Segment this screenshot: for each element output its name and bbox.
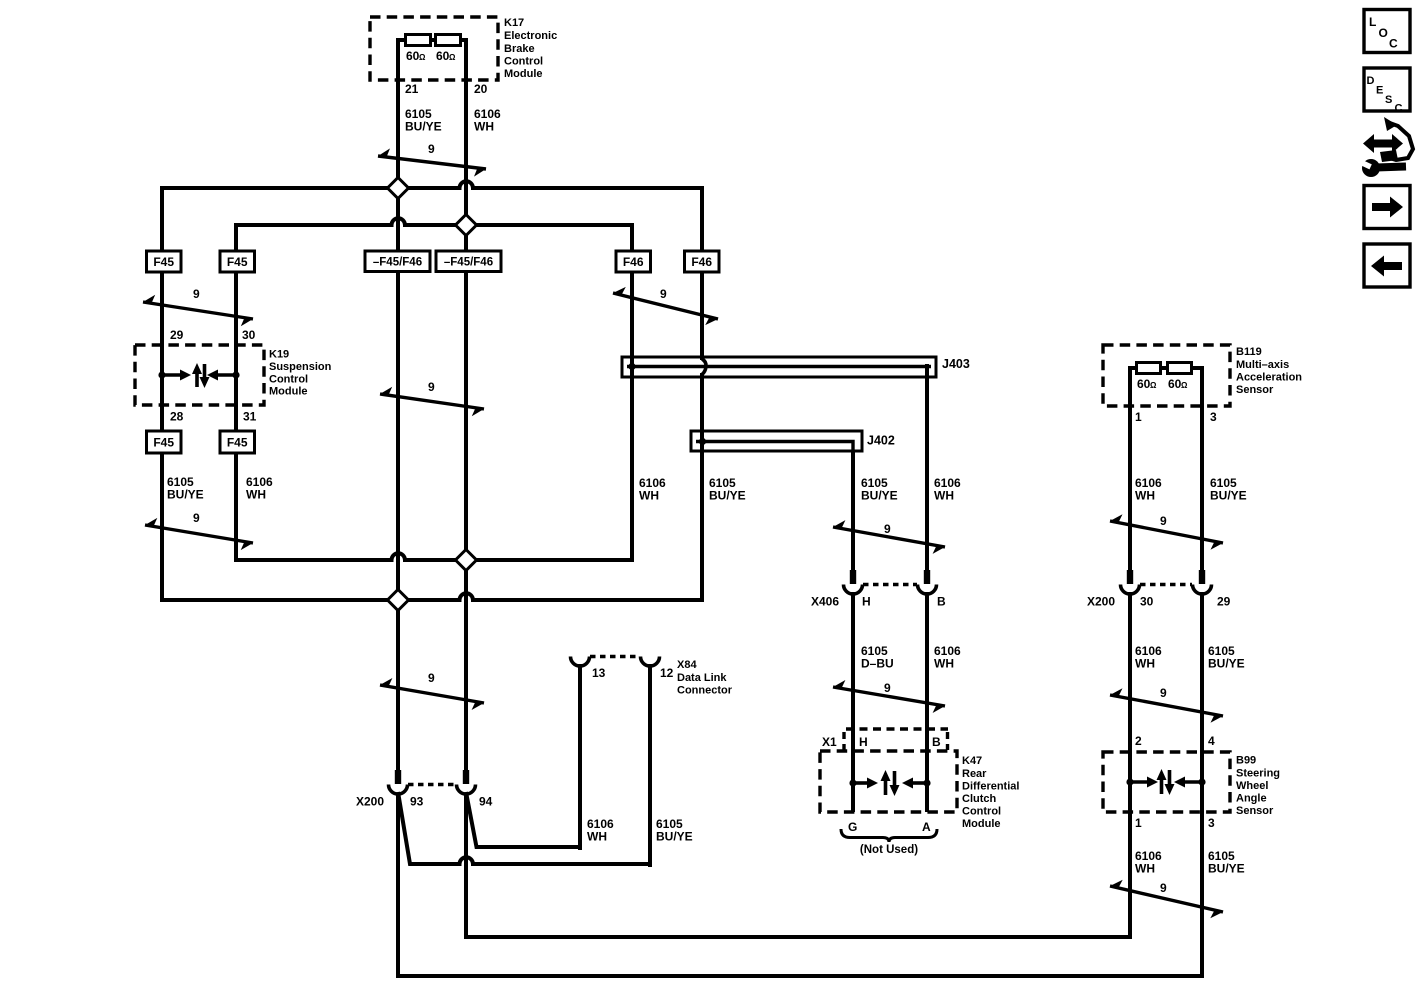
- svg-text:WH: WH: [934, 489, 954, 503]
- svg-text:31: 31: [243, 410, 257, 424]
- svg-text:B: B: [932, 735, 941, 749]
- connector X406 pinH terminal: [850, 570, 856, 584]
- wire 6105 BU/YE K17 pin21 vertical x398: [396, 39, 400, 772]
- svg-text:WH: WH: [246, 488, 266, 502]
- svg-text:–F45/F46: –F45/F46: [444, 257, 493, 269]
- wire X200-94 jog to X84 pin13 (6106 WH): [466, 792, 582, 847]
- wire 6105 BU/YE X84 pin12 vertical x650: [648, 664, 652, 867]
- svg-text:WH: WH: [1135, 489, 1155, 503]
- svg-text:29: 29: [1217, 595, 1231, 609]
- bus wire third with hop at x398: [234, 553, 634, 560]
- svg-text:9: 9: [884, 522, 891, 536]
- svg-text:B99: B99: [1236, 755, 1256, 767]
- wire 6105 BU/YE X200 pin29 to B99 pin3 vertical: [1200, 592, 1204, 978]
- connector X406 dashed link: [863, 583, 917, 586]
- svg-text:–F45/F46: –F45/F46: [373, 257, 422, 269]
- svg-text:28: 28: [170, 410, 184, 424]
- K47 internal signal arrows: [849, 779, 856, 786]
- svg-text:Data Link: Data Link: [677, 672, 727, 684]
- svg-text:D–BU: D–BU: [861, 657, 894, 671]
- svg-text:9: 9: [1160, 881, 1167, 895]
- svg-text:B119: B119: [1236, 346, 1262, 358]
- svg-text:9: 9: [193, 287, 200, 301]
- wire 6106 WH below X200 pin94 vertical: [464, 793, 468, 939]
- wire 6105 BU/YE left loop vertical x162: [160, 186, 164, 602]
- svg-text:30: 30: [1140, 595, 1154, 609]
- K19 internal signal arrows: [158, 371, 165, 378]
- icon box arrow left: [1364, 244, 1410, 287]
- svg-text:C: C: [1389, 37, 1398, 51]
- wire 6105 D-BU X406-H to K47 vertical: [851, 592, 855, 812]
- twisted-pair symbol 9 (K17 leads): [378, 156, 486, 169]
- svg-text:1: 1: [1135, 816, 1142, 830]
- svg-text:3: 3: [1210, 410, 1217, 424]
- connector X200 right dashed link: [1140, 583, 1192, 586]
- module box K19 Suspension Control Module: [135, 345, 264, 405]
- fuse box F45 (below K19 left): [147, 431, 182, 453]
- resistor 60ohm K17 right: [436, 35, 461, 46]
- fuse box -F45/F46 (left): [365, 251, 430, 272]
- svg-text:G: G: [848, 820, 857, 834]
- svg-text:WH: WH: [1135, 657, 1155, 671]
- svg-text:Clutch: Clutch: [962, 793, 997, 805]
- connector X84 dashed link: [590, 655, 640, 658]
- svg-text:21: 21: [405, 82, 419, 96]
- bottom bus wire 6106 WH to B99 pin1: [464, 935, 1132, 939]
- junction diamond bus2 x466: [456, 215, 477, 236]
- twisted-pair symbol 9 (F46 pair): [613, 293, 718, 319]
- svg-text:F45: F45: [227, 436, 248, 450]
- svg-text:(Not Used): (Not Used): [860, 844, 918, 856]
- module box K17 Electronic Brake Control Module: [370, 17, 498, 80]
- svg-text:Connector: Connector: [677, 685, 733, 697]
- svg-text:F45: F45: [227, 255, 248, 269]
- module box B99 Steering Wheel Angle Sensor: [1103, 752, 1230, 812]
- svg-text:BU/YE: BU/YE: [405, 120, 442, 134]
- wire 6106 WH X84 pin13 vertical x580: [578, 664, 582, 850]
- svg-text:Brake: Brake: [504, 43, 535, 55]
- bus wire fourth with hop at x466: [160, 593, 704, 600]
- svg-text:A: A: [922, 820, 931, 834]
- svg-text:X200: X200: [1087, 595, 1115, 609]
- K47 (Not Used) brace: [841, 829, 937, 842]
- svg-text:X200: X200: [356, 795, 384, 809]
- resistor 60ohm B119 left: [1137, 363, 1161, 374]
- wire 6106 WH inner loop vertical x236: [234, 223, 238, 562]
- svg-text:1: 1: [1135, 410, 1142, 424]
- twisted-pair symbol 9 (B119 to X200): [1110, 521, 1223, 543]
- junction diamond bus1 x398: [388, 178, 409, 199]
- twisted-pair symbol 9 (center pair lower): [380, 685, 484, 703]
- twisted-pair symbol 9 (center pair upper): [380, 394, 484, 409]
- svg-text:K19: K19: [269, 349, 289, 361]
- fuse box F45 (inner): [220, 251, 255, 272]
- svg-text:D: D: [1367, 75, 1375, 87]
- B119 internal wire to resistors: [1130, 368, 1137, 373]
- B99 internal signal arrows: [1126, 778, 1133, 785]
- svg-text:BU/YE: BU/YE: [1208, 862, 1245, 876]
- svg-text:B: B: [937, 595, 946, 609]
- svg-text:Sensor: Sensor: [1236, 805, 1274, 817]
- twisted-pair symbol 9 (left pair lower): [145, 525, 253, 543]
- icon wrench with arrows: [1363, 134, 1403, 153]
- svg-text:K17: K17: [504, 17, 524, 29]
- svg-text:13: 13: [592, 666, 606, 680]
- icon box LOC: [1364, 10, 1410, 53]
- svg-text:O: O: [1379, 26, 1388, 40]
- connector X200 left dashed link: [408, 783, 456, 786]
- svg-text:29: 29: [170, 328, 184, 342]
- svg-text:E: E: [1376, 85, 1383, 97]
- svg-text:Ω: Ω: [1150, 381, 1157, 390]
- svg-text:60: 60: [436, 49, 450, 63]
- svg-text:9: 9: [428, 671, 435, 685]
- svg-text:Control: Control: [962, 806, 1001, 818]
- module box K47 Rear Differential Clutch Control Module: [820, 751, 957, 812]
- wire 6105 BU/YE F46 to J402 vertical x702 (S-jog at J403): [700, 186, 704, 360]
- twisted-pair symbol 9 (left F45 pair): [143, 302, 253, 319]
- splice J402 connection dot (wire 6105 BU/YE): [699, 438, 706, 445]
- bus wire second with hop at x398: [234, 218, 634, 225]
- svg-text:9: 9: [1160, 686, 1167, 700]
- svg-text:Electronic: Electronic: [504, 30, 557, 42]
- wire 6106 WH F46 to J403 vertical x632: [630, 223, 634, 562]
- connector X200 pin29 terminal: [1199, 570, 1205, 584]
- svg-text:J402: J402: [867, 434, 895, 448]
- splice pack J403: [622, 357, 936, 377]
- svg-text:BU/YE: BU/YE: [709, 489, 746, 503]
- svg-text:2: 2: [1135, 734, 1142, 748]
- twisted-pair symbol 9 (B99 bottom): [1110, 886, 1223, 912]
- svg-text:9: 9: [660, 287, 667, 301]
- svg-text:X406: X406: [811, 595, 839, 609]
- svg-text:H: H: [859, 735, 868, 749]
- svg-text:H: H: [862, 595, 871, 609]
- svg-text:20: 20: [474, 82, 488, 96]
- fuse box F45 (left outer): [147, 251, 182, 272]
- svg-text:WH: WH: [639, 489, 659, 503]
- svg-text:60: 60: [1168, 377, 1182, 391]
- svg-text:Control: Control: [269, 374, 308, 386]
- svg-text:F46: F46: [623, 255, 644, 269]
- svg-text:Ω: Ω: [449, 53, 456, 62]
- wire 6106 WH K17 pin20 vertical x466: [464, 39, 468, 772]
- resistor 60ohm K17 left: [406, 35, 431, 46]
- svg-text:BU/YE: BU/YE: [167, 488, 204, 502]
- connector X406 pinB terminal: [924, 570, 930, 584]
- fuse box F45 (below K19 right): [220, 431, 255, 453]
- wire 6106 WH X200 pin30 to B99 pin1 vertical: [1128, 592, 1132, 939]
- svg-text:Ω: Ω: [1181, 381, 1188, 390]
- svg-text:9: 9: [193, 511, 200, 525]
- svg-text:Wheel: Wheel: [1236, 780, 1268, 792]
- svg-text:S: S: [1385, 94, 1392, 106]
- fuse box F46 (left): [616, 251, 651, 272]
- svg-text:BU/YE: BU/YE: [1208, 657, 1245, 671]
- svg-text:C: C: [1395, 103, 1403, 115]
- svg-text:Module: Module: [504, 68, 543, 80]
- svg-text:60: 60: [1137, 377, 1151, 391]
- svg-text:Control: Control: [504, 56, 543, 68]
- fuse box F46 (right): [685, 251, 720, 272]
- svg-text:F45: F45: [153, 255, 174, 269]
- wire 6105 BU/YE B119 pin3 vertical x1202: [1200, 366, 1204, 572]
- icon box DESC: [1364, 68, 1410, 111]
- fuse box -F45/F46 (right): [436, 251, 501, 272]
- twisted-pair symbol 9 (J402/J403 to X406): [833, 527, 945, 547]
- svg-text:Module: Module: [269, 386, 308, 398]
- svg-text:Angle: Angle: [1236, 793, 1267, 805]
- svg-text:Multi–axis: Multi–axis: [1236, 359, 1289, 371]
- wire X200-93 jog to X84 pin12 (6105 BU/YE) with hop at x466: [398, 792, 652, 864]
- wire 6106 WH B119 pin1 vertical x1130: [1128, 366, 1132, 572]
- svg-text:BU/YE: BU/YE: [1210, 489, 1247, 503]
- svg-text:9: 9: [884, 681, 891, 695]
- svg-text:Suspension: Suspension: [269, 361, 332, 373]
- svg-text:Ω: Ω: [419, 53, 426, 62]
- resistor 60ohm B119 right: [1168, 363, 1192, 374]
- wire 6106 WH X406-B to K47 vertical: [925, 592, 929, 812]
- module box B119 Multi-axis Acceleration Sensor: [1103, 345, 1230, 406]
- svg-text:94: 94: [479, 795, 493, 809]
- svg-text:Module: Module: [962, 818, 1001, 830]
- twisted-pair symbol 9 (X406 to K47): [833, 687, 945, 706]
- svg-text:F46: F46: [691, 255, 712, 269]
- svg-text:X1: X1: [822, 735, 837, 749]
- svg-text:9: 9: [428, 380, 435, 394]
- svg-text:9: 9: [1160, 514, 1167, 528]
- svg-text:60: 60: [406, 49, 420, 63]
- svg-text:Acceleration: Acceleration: [1236, 372, 1302, 384]
- svg-text:30: 30: [242, 328, 256, 342]
- svg-text:WH: WH: [1135, 862, 1155, 876]
- svg-text:Rear: Rear: [962, 768, 987, 780]
- svg-text:93: 93: [410, 795, 424, 809]
- svg-text:F45: F45: [153, 436, 174, 450]
- icon box arrow right: [1364, 186, 1410, 229]
- bus wire top (serial data) with hop at x466: [160, 181, 704, 188]
- svg-text:WH: WH: [934, 657, 954, 671]
- svg-text:Differential: Differential: [962, 781, 1019, 793]
- svg-text:Sensor: Sensor: [1236, 384, 1274, 396]
- svg-text:K47: K47: [962, 755, 982, 767]
- wire 6105 BU/YE J402 to X406-H vertical x853: [851, 450, 855, 572]
- svg-text:4: 4: [1208, 734, 1215, 748]
- svg-text:12: 12: [660, 666, 674, 680]
- svg-text:X84: X84: [677, 659, 697, 671]
- wire 6105 BU/YE below X200 pin93 vertical: [396, 793, 400, 978]
- connector X200 pin94 terminal: [463, 770, 469, 784]
- svg-text:J403: J403: [942, 357, 970, 371]
- twisted-pair symbol 9 (X200 to B99): [1110, 695, 1223, 716]
- connector X200 pin30 terminal: [1127, 570, 1133, 584]
- svg-text:Steering: Steering: [1236, 768, 1280, 780]
- svg-text:BU/YE: BU/YE: [861, 489, 898, 503]
- connector X1 boundary dashes: [846, 727, 948, 730]
- svg-text:9: 9: [428, 142, 435, 156]
- junction diamond bus4 x398: [388, 590, 409, 611]
- wire 6106 WH J403 to X406-B vertical x927: [925, 364, 929, 572]
- connector X84 pin12 terminal: [641, 657, 660, 667]
- svg-text:L: L: [1369, 15, 1376, 29]
- splice pack J402: [691, 431, 862, 451]
- svg-text:WH: WH: [474, 120, 494, 134]
- svg-text:3: 3: [1208, 816, 1215, 830]
- bottom bus wire 6105 BU/YE to B99 pin3: [396, 974, 1204, 978]
- svg-text:BU/YE: BU/YE: [656, 830, 693, 844]
- connector X200 pin93 terminal: [395, 770, 401, 784]
- splice J403 connection dot (wire 6106 WH): [628, 363, 635, 370]
- connector X84 pin13 terminal: [571, 657, 590, 667]
- svg-text:WH: WH: [587, 830, 607, 844]
- K17 internal wire to resistors: [398, 40, 406, 45]
- junction diamond bus3 x466: [456, 550, 477, 571]
